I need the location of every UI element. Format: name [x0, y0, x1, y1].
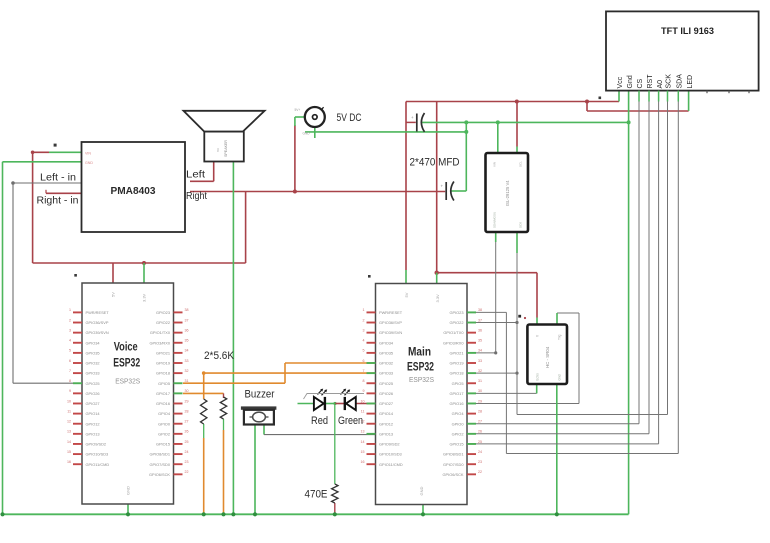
wire green LED node down to resistor R3 — [334, 404, 336, 485]
svg-text:GPIO12: GPIO12 — [86, 421, 100, 426]
svg-text:GPIO21: GPIO21 — [156, 350, 170, 355]
svg-text:GPIO26: GPIO26 — [86, 391, 100, 396]
svg-text:26: 26 — [478, 430, 482, 434]
svg-text:3.3V: 3.3V — [435, 294, 440, 303]
wire resistor R2 bottom to ground bus — [223, 419, 225, 514]
svg-text:GPIO16: GPIO16 — [449, 401, 463, 406]
svg-text:Echo: Echo — [536, 373, 540, 380]
svg-text:SDA: SDA — [677, 74, 684, 89]
capacitor C1 470MFD — [406, 113, 425, 132]
svg-text:22: 22 — [185, 470, 189, 474]
svg-text:GPIO9/SD2: GPIO9/SD2 — [86, 442, 107, 447]
wire green main GND to ground bus — [422, 504, 424, 514]
svg-text:23: 23 — [478, 460, 482, 464]
svg-text:GPIO35: GPIO35 — [379, 350, 393, 355]
svg-text:3: 3 — [69, 328, 71, 332]
svg-text:Gnd: Gnd — [558, 374, 562, 380]
wire red 5V rail jack to capacitor C2 — [190, 191, 445, 193]
svg-text:GPIO4: GPIO4 — [452, 411, 465, 416]
svg-text:9: 9 — [363, 389, 365, 393]
wire gray GPIO0 to TFT CS — [476, 102, 639, 424]
svg-text:GPIO35: GPIO35 — [86, 350, 100, 355]
LED D1 Red — [314, 389, 327, 411]
TFT pin labels and stubs — [617, 74, 749, 102]
node stray solder dot near PMA — [54, 144, 57, 147]
wire red 5V drop to module U3 VIN — [516, 102, 518, 154]
wire gray GPIO2 to TFT RST — [476, 102, 649, 434]
svg-text:GPIO8/SD1: GPIO8/SD1 — [443, 452, 464, 457]
wire green jack GND — [305, 127, 468, 138]
svg-text:5V: 5V — [404, 292, 409, 297]
svg-text:GND: GND — [126, 486, 131, 495]
wire gray GPIO17 to HC-SR04 Echo — [476, 384, 537, 393]
wire gray marker over LEDs — [304, 394, 365, 400]
wire gray module U3 pin1 to GPIO21 — [476, 232, 497, 355]
svg-text:GPIO2: GPIO2 — [158, 431, 170, 436]
wire orange voice GPIO5 to main GPIO32 — [183, 363, 377, 383]
svg-text:470E: 470E — [305, 489, 328, 501]
svg-text:5: 5 — [69, 349, 71, 353]
svg-text:31: 31 — [478, 379, 482, 383]
amplifier U6 PMA8403 — [82, 142, 186, 232]
wire green between LEDs — [326, 403, 336, 405]
svg-text:GPIO34: GPIO34 — [379, 340, 394, 345]
svg-text:ESP32S: ESP32S — [409, 377, 434, 384]
svg-text:32: 32 — [478, 369, 482, 373]
wire jack positive lead — [295, 117, 305, 192]
wire green ground to capacitor C2 — [452, 122, 467, 191]
svg-text:GPIO39/SVN: GPIO39/SVN — [379, 330, 402, 335]
svg-text:ISL-29125 V4: ISL-29125 V4 — [505, 180, 510, 206]
svg-text:28: 28 — [185, 409, 189, 413]
svg-text:VIN: VIN — [493, 162, 497, 167]
svg-text:Right - in: Right - in — [37, 195, 79, 207]
svg-text:13: 13 — [67, 430, 71, 434]
wire red 5V to HC-SR04 VCC — [435, 271, 538, 325]
svg-text:TFT ILI 9163: TFT ILI 9163 — [661, 26, 714, 37]
svg-text:27: 27 — [185, 420, 189, 424]
capacitor C2 470MFD — [441, 182, 454, 201]
svg-text:GPIO15: GPIO15 — [449, 442, 463, 447]
svg-text:GPIO5: GPIO5 — [158, 381, 170, 386]
svg-text:SPEAKER: SPEAKER — [224, 140, 228, 157]
svg-text:GPIO26: GPIO26 — [379, 391, 393, 396]
svg-text:5V DC: 5V DC — [337, 112, 362, 124]
svg-text:23: 23 — [185, 460, 189, 464]
node stray mark near TFT Vcc — [599, 97, 602, 100]
wire red TFT Vcc feed — [587, 91, 619, 102]
wire orange main GPIO33 to resistor R1 — [202, 371, 377, 399]
svg-text:GPIO9/SD2: GPIO9/SD2 — [379, 442, 400, 447]
svg-text:SCL: SCL — [519, 161, 523, 167]
node junction LED to resistor R3 — [333, 402, 336, 405]
svg-text:22: 22 — [478, 470, 482, 474]
svg-text:3: 3 — [363, 328, 365, 332]
svg-text:GPIO0: GPIO0 — [158, 421, 171, 426]
svg-text:HC - SR04: HC - SR04 — [545, 346, 550, 368]
svg-text:PMA8403: PMA8403 — [111, 186, 156, 197]
svg-text:GPIO4: GPIO4 — [158, 411, 171, 416]
svg-text:GPIO18: GPIO18 — [449, 371, 463, 376]
resistor R3 470E — [332, 484, 338, 503]
svg-text:33: 33 — [478, 359, 482, 363]
svg-text:GPIO6/SCK: GPIO6/SCK — [149, 472, 170, 477]
dc jack J1 — [295, 107, 325, 136]
svg-text:14: 14 — [361, 440, 365, 444]
svg-text:15: 15 — [361, 450, 365, 454]
svg-text:GPIO21: GPIO21 — [449, 350, 463, 355]
svg-text:Voice: Voice — [114, 342, 138, 354]
svg-text:GPIO33: GPIO33 — [86, 371, 100, 376]
svg-text:GPIO0: GPIO0 — [452, 421, 465, 426]
svg-text:PWR/RESET: PWR/RESET — [379, 310, 403, 315]
svg-text:RST: RST — [647, 74, 654, 89]
svg-text:ESP32: ESP32 — [113, 358, 140, 370]
svg-text:GPIO27: GPIO27 — [86, 401, 100, 406]
svg-text:Green: Green — [338, 415, 363, 427]
svg-text:GPIO13: GPIO13 — [86, 431, 100, 436]
wire green main 3.3V top pin lead — [406, 270, 437, 284]
svg-text:2: 2 — [69, 318, 71, 322]
svg-text:25: 25 — [185, 440, 189, 444]
wire green voice GND to ground bus — [127, 504, 129, 514]
wire red green-LED to main GPIO27 — [356, 403, 377, 405]
svg-text:4: 4 — [69, 339, 71, 343]
wire green HC-SR04 GND to ground bus — [556, 384, 558, 514]
svg-text:GPIO34: GPIO34 — [86, 340, 101, 345]
svg-text:Left - in: Left - in — [40, 172, 76, 184]
wire red voice 5V top pin — [112, 263, 114, 283]
ESP32 board U2 Main — [361, 284, 483, 505]
wire buzzer right pin to main GPIO13 — [264, 425, 377, 435]
svg-text:ESP32S: ESP32S — [115, 379, 140, 386]
svg-text:GPIO19: GPIO19 — [156, 361, 170, 366]
svg-text:GPIO18: GPIO18 — [156, 371, 170, 376]
svg-text:35: 35 — [478, 339, 482, 343]
svg-text:24: 24 — [185, 450, 189, 454]
svg-text:36: 36 — [478, 328, 482, 332]
wire green PMA VIN pin lead — [49, 151, 82, 153]
wire gray module U3 pin2 down / SPI clock to TFT SCK — [515, 102, 667, 415]
ESP32 board U1 Voice — [67, 283, 189, 504]
svg-text:27: 27 — [478, 420, 482, 424]
svg-text:GPIO3/RX0: GPIO3/RX0 — [149, 340, 170, 345]
svg-text:GPIO25: GPIO25 — [86, 381, 100, 386]
wire orange voice GPIO17 to resistor R2 — [183, 393, 224, 398]
svg-text:Gnd: Gnd — [627, 75, 634, 88]
wire resistor R1 bottom to ground bus — [203, 424, 205, 514]
wire gray GPIO18 tap — [476, 372, 517, 374]
svg-text:GPIO22: GPIO22 — [449, 320, 463, 325]
svg-text:5: 5 — [363, 349, 365, 353]
wire green ground to module U3 — [497, 122, 499, 153]
svg-text:SDA(MOSI): SDA(MOSI) — [493, 212, 497, 228]
svg-text:ESP32: ESP32 — [407, 361, 434, 373]
svg-text:GPIO36/SVP: GPIO36/SVP — [86, 320, 109, 325]
svg-text:2*5.6K: 2*5.6K — [204, 350, 235, 362]
svg-text:Trig: Trig — [558, 334, 562, 340]
node junction jack positive — [293, 190, 297, 194]
wire red between LEDs — [335, 403, 346, 405]
svg-text:7: 7 — [69, 369, 71, 373]
svg-text:GND: GND — [419, 487, 424, 496]
svg-text:GPIO23: GPIO23 — [449, 310, 463, 315]
svg-text:30: 30 — [185, 389, 189, 393]
resistor R2 5.6K — [220, 397, 226, 419]
svg-text:+: + — [441, 184, 444, 189]
svg-text:GPIO36/SVP: GPIO36/SVP — [379, 320, 402, 325]
svg-text:GPIO22: GPIO22 — [156, 320, 170, 325]
resistor R1 5.6K — [201, 399, 207, 424]
module U3 ISL29125 — [486, 153, 529, 232]
svg-text:GPIO2: GPIO2 — [452, 431, 464, 436]
svg-text:SCK: SCK — [519, 222, 523, 228]
svg-text:26: 26 — [185, 430, 189, 434]
svg-text:28: 28 — [478, 409, 482, 413]
svg-text:GPIO8/SD1: GPIO8/SD1 — [149, 452, 170, 457]
svg-text:+: + — [411, 115, 414, 120]
svg-text:6: 6 — [69, 359, 71, 363]
svg-text:GPIO17: GPIO17 — [156, 391, 170, 396]
node stray mark above main ESP32 — [368, 275, 371, 278]
wire red speaker left lead from PMA Left out — [190, 162, 214, 182]
svg-text:5V+: 5V+ — [295, 108, 301, 112]
svg-text:29: 29 — [478, 399, 482, 403]
svg-text:GPIO39/SVN: GPIO39/SVN — [86, 330, 109, 335]
svg-text:16: 16 — [361, 460, 365, 464]
TFT display U4 ILI9163 — [606, 11, 759, 90]
svg-text:38: 38 — [185, 308, 189, 312]
svg-text:Buzzer: Buzzer — [245, 389, 275, 401]
svg-text:GPIO12: GPIO12 — [379, 421, 393, 426]
svg-text:38: 38 — [478, 308, 482, 312]
svg-text:34: 34 — [185, 349, 189, 353]
svg-text:GPIO19: GPIO19 — [449, 361, 463, 366]
svg-text:2: 2 — [363, 318, 365, 322]
svg-text:GPIO33: GPIO33 — [379, 371, 393, 376]
svg-text:8: 8 — [363, 379, 365, 383]
svg-text:GPIO13: GPIO13 — [379, 431, 393, 436]
svg-text:GPIO7/SD0: GPIO7/SD0 — [149, 462, 170, 467]
svg-text:GPIO17: GPIO17 — [449, 391, 463, 396]
svg-text:16: 16 — [67, 460, 71, 464]
svg-text:13: 13 — [361, 430, 365, 434]
svg-text:10: 10 — [361, 399, 365, 403]
speaker SP1 — [184, 111, 265, 162]
svg-text:34: 34 — [478, 349, 482, 353]
wire green LED anode feed — [298, 403, 314, 405]
wire green ground rail top — [422, 120, 631, 124]
svg-text:GPIO1/TX0: GPIO1/TX0 — [443, 330, 464, 335]
node stray mark above voice ESP32 — [74, 274, 77, 277]
svg-text:GPIO15: GPIO15 — [156, 442, 170, 447]
svg-text:GPIO14: GPIO14 — [86, 411, 101, 416]
wire gray Left-in to voice GPIO25 — [11, 181, 81, 383]
svg-text:GPIO1/TX0: GPIO1/TX0 — [150, 330, 171, 335]
svg-text:GPIO27: GPIO27 — [379, 401, 393, 406]
svg-text:GPIO10/SD3: GPIO10/SD3 — [86, 452, 109, 457]
svg-text:LED: LED — [687, 75, 694, 89]
wire green buzzer left pin to ground bus — [254, 425, 256, 515]
svg-text:4: 4 — [363, 339, 365, 343]
svg-text:VIN: VIN — [85, 152, 91, 156]
svg-text:25: 25 — [478, 440, 482, 444]
svg-text:CS: CS — [637, 78, 644, 88]
svg-text:15: 15 — [67, 450, 71, 454]
svg-text:A0: A0 — [657, 80, 664, 89]
svg-text:PWR/RESET: PWR/RESET — [86, 310, 110, 315]
svg-text:GPIO10/SD3: GPIO10/SD3 — [379, 452, 402, 457]
ground bus — [0, 512, 628, 516]
ultrasonic module U5 HC-SR04 — [527, 325, 567, 385]
svg-text:31: 31 — [185, 379, 189, 383]
wire gray GPIO15 to TFT A0 — [471, 102, 659, 444]
svg-text:2*470 MFD: 2*470 MFD — [410, 157, 460, 169]
svg-text:36: 36 — [185, 328, 189, 332]
svg-text:11: 11 — [361, 409, 365, 413]
svg-text:7: 7 — [363, 369, 365, 373]
svg-text:GPIO11/CMD: GPIO11/CMD — [379, 462, 403, 467]
svg-text:6: 6 — [363, 359, 365, 363]
buzzer BZ1 — [241, 406, 277, 424]
wire red Right-in stub — [46, 190, 82, 194]
node junction at voice VIN pin on 5V rail — [142, 261, 146, 265]
svg-text:Right: Right — [186, 190, 207, 202]
svg-text:30: 30 — [478, 389, 482, 393]
svg-text:SCK: SCK — [666, 74, 673, 89]
svg-text:GPIO5: GPIO5 — [452, 381, 464, 386]
wire green voice 3.3V top pin — [143, 263, 145, 283]
svg-text:GND: GND — [303, 132, 311, 136]
node stray mark left of HC-SR04 — [518, 315, 526, 319]
svg-text:11: 11 — [67, 409, 71, 413]
svg-text:Left: Left — [186, 169, 205, 181]
wire green speaker negative to ground bus — [232, 162, 234, 515]
svg-text:Red: Red — [311, 415, 328, 427]
svg-text:GPIO14: GPIO14 — [379, 411, 394, 416]
svg-text:GPIO6/SCK: GPIO6/SCK — [443, 472, 464, 477]
wire green PMA GND to ground bus — [3, 162, 82, 515]
svg-text:GPIO7/SD0: GPIO7/SD0 — [443, 462, 464, 467]
svg-text:1: 1 — [363, 308, 365, 312]
svg-text:GPIO11/CMD: GPIO11/CMD — [86, 462, 110, 467]
svg-text:9: 9 — [69, 389, 71, 393]
svg-text:32: 32 — [185, 369, 189, 373]
svg-text:10: 10 — [67, 399, 71, 403]
node junction SPI clock at module pin — [515, 321, 518, 324]
svg-text:3.3V: 3.3V — [142, 293, 147, 302]
wire red 5V top rail — [406, 100, 589, 273]
svg-text:37: 37 — [185, 318, 189, 322]
svg-text:14: 14 — [67, 440, 71, 444]
svg-text:GPIO3/RX0: GPIO3/RX0 — [443, 340, 464, 345]
svg-text:12: 12 — [67, 420, 71, 424]
wire gray GPIO22 tap to SPI clock — [476, 322, 517, 324]
wire gray GPIO23 to TFT SDA — [476, 102, 678, 454]
svg-text:Main: Main — [408, 347, 431, 359]
svg-text:GPIO32: GPIO32 — [86, 361, 100, 366]
svg-text:Vcc: Vcc — [617, 76, 624, 88]
svg-text:1: 1 — [69, 308, 71, 312]
svg-text:GPIO16: GPIO16 — [156, 401, 170, 406]
svg-text:5V: 5V — [111, 292, 116, 297]
svg-text:GPIO25: GPIO25 — [379, 381, 393, 386]
LED D2 Green — [341, 389, 356, 411]
wire gray GPIO16 to HC-SR04 Trig — [476, 313, 579, 404]
svg-text:GPIO23: GPIO23 — [156, 310, 170, 315]
svg-text:8: 8 — [69, 379, 71, 383]
svg-text:GPIO32: GPIO32 — [379, 361, 393, 366]
wire red resistor R3 to ground bus — [334, 503, 336, 514]
svg-text:GND: GND — [85, 161, 93, 165]
wire red TFT LED feed — [587, 91, 689, 111]
svg-text:35: 35 — [185, 339, 189, 343]
svg-text:24: 24 — [478, 450, 482, 454]
svg-text:37: 37 — [478, 318, 482, 322]
wire red 5V from jack to PMA VIN via left side — [31, 151, 246, 264]
wire green TFT Gnd down to ground bus — [628, 91, 630, 514]
svg-text:29: 29 — [185, 399, 189, 403]
svg-text:33: 33 — [185, 359, 189, 363]
